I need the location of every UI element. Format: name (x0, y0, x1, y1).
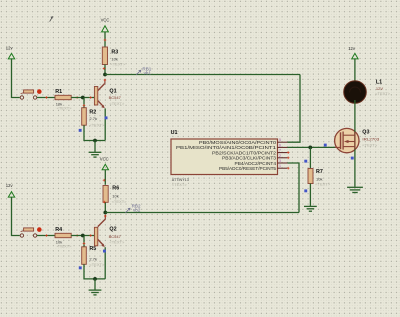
pin-end mark R6 top (103, 179, 106, 182)
blue marker near R5 bottom (79, 266, 82, 269)
switch SW2 terminal right (33, 234, 36, 237)
transistor Q2 collector stub (104, 215, 106, 220)
svg-text:<TEXT>: <TEXT> (89, 123, 105, 128)
U1 pin stub PB4 (pin 3) (278, 162, 288, 164)
switch SW1 actuator bar (24, 90, 34, 93)
wire R7 bottom pin (309, 184, 311, 206)
switch SW2 terminal left (20, 234, 23, 237)
junction collector node Q1 / net RB1 (103, 73, 107, 77)
svg-text:IRL2703: IRL2703 (362, 137, 380, 142)
resistor R3 body (102, 47, 107, 65)
power VCC (middle) arrow (102, 164, 108, 170)
svg-text:<TEXT>: <TEXT> (375, 91, 391, 96)
wire switch to R4 (bottom) (37, 235, 55, 237)
cursor mark (50, 17, 53, 22)
svg-text:<TEXT>: <TEXT> (172, 182, 188, 187)
transistor Q2 base bar (94, 227, 97, 246)
svg-text:R3: R3 (111, 49, 118, 55)
pin-end mark Q2 base (89, 234, 92, 237)
MOSFET Q3 source link (343, 146, 355, 148)
switch SW1 red button dot (37, 89, 42, 94)
U1 pin stub PB1 (pin 6) (278, 146, 288, 148)
power 12v (right) arrow (352, 53, 358, 59)
wire VCC stem to R3 (104, 32, 106, 47)
svg-text:BC547: BC547 (109, 95, 122, 100)
switch SW2 red button dot (37, 227, 42, 232)
svg-text:BC547: BC547 (109, 234, 122, 239)
svg-text:R5: R5 (89, 246, 96, 252)
svg-text:6: 6 (279, 143, 281, 147)
svg-text:12v: 12v (6, 46, 14, 51)
IC U1 body (171, 139, 278, 175)
wire R4 to base node (bottom) (71, 235, 94, 237)
svg-text:2.7k: 2.7k (89, 257, 97, 262)
wire R3 bottom to collector node (104, 65, 106, 75)
svg-text:10k: 10k (112, 193, 118, 198)
svg-text:R2: R2 (89, 109, 96, 115)
svg-text:R1: R1 (55, 89, 62, 95)
svg-text:<TEXT>: <TEXT> (112, 199, 128, 204)
svg-text:Q1: Q1 (109, 88, 116, 94)
resistor R5 top pin wire (83, 236, 85, 247)
svg-text:vb2: vb2 (133, 207, 141, 212)
svg-text:7: 7 (279, 149, 281, 153)
pin-end mark Q2 collector (104, 215, 107, 218)
wire R5 bottom to ground node (84, 264, 105, 279)
pin-end mark U1 PB3 (287, 157, 290, 160)
wire 12v to lamp L1 (354, 59, 356, 82)
blue marker on Q2 emitter wire (103, 250, 106, 253)
svg-text:VCC: VCC (100, 157, 109, 162)
wire VCC stem to R6 (104, 170, 106, 185)
svg-text:<TEXT>: <TEXT> (57, 244, 73, 249)
pin-end mark R5 top (83, 242, 86, 245)
junction base node Q1 (81, 96, 85, 100)
svg-text:<TEXT>: <TEXT> (315, 181, 331, 186)
wire R2 bottom to ground node (84, 125, 105, 140)
svg-text:2.7k: 2.7k (89, 116, 97, 121)
svg-text:PB5/ADC0/RESET/PCINT5: PB5/ADC0/RESET/PCINT5 (219, 166, 277, 171)
ground symbol (top circuit) (89, 141, 102, 158)
MOSFET Q3 body link with arrow (348, 141, 355, 143)
svg-text:12V: 12V (376, 86, 383, 91)
wire 12v stem to switch row (bottom) (12, 197, 20, 235)
MOSFET Q3 body circle (335, 128, 359, 152)
pin-end mark R3 bottom (103, 67, 106, 70)
blue marker near R2 bottom (79, 129, 82, 132)
junction base node Q2 (81, 234, 85, 238)
svg-text:VCC: VCC (101, 18, 110, 23)
wire Q1 emitter down (104, 108, 106, 140)
pin-end mark R6 bottom (103, 201, 106, 204)
svg-text:1: 1 (279, 164, 281, 168)
power VCC (top) arrow (102, 26, 109, 32)
blue marker on Q1 emitter wire (105, 116, 108, 119)
blue marker near R7 bottom (304, 189, 307, 192)
wire lamp to Q3 drain and source to ground (354, 100, 356, 187)
MOSFET Q3 gate inner lead (335, 146, 341, 148)
blue marker on Q3 source (351, 157, 354, 160)
svg-text:2: 2 (279, 154, 281, 158)
net label RB1 arrow (136, 70, 141, 75)
resistor R6 body (103, 186, 108, 203)
U1 pin stub PB3 (pin 2) (278, 157, 288, 159)
wire R1 to base node (top) (71, 97, 94, 99)
wire net RB1 vertical down to U1 pin PB0 (288, 75, 301, 143)
resistor R1 body (55, 95, 71, 99)
switch SW1 terminal left (20, 96, 23, 99)
power 12v (bottom left) arrow (8, 192, 14, 198)
power 12v (top left) arrow (8, 53, 14, 59)
blue marker on gate wire (324, 144, 327, 147)
lamp L1 (344, 81, 367, 104)
svg-text:Q3: Q3 (362, 130, 369, 136)
svg-text:<TEXT>: <TEXT> (362, 143, 378, 148)
MOSFET Q3 drain link (343, 134, 355, 136)
resistor R7 body (308, 169, 313, 184)
ground symbol (R7) (304, 206, 317, 211)
svg-text:L1: L1 (376, 79, 382, 85)
ground symbol (Q3 source) (347, 187, 363, 192)
resistor R2 top pin wire (83, 98, 85, 108)
wire Q2 emitter down (104, 247, 106, 279)
pin-end mark R4 left (45, 234, 48, 237)
U1 pin stub PB2 (pin 7) (278, 152, 288, 154)
pin-end mark Q1 collector (104, 79, 107, 82)
svg-text:R7: R7 (316, 169, 323, 175)
pin-end mark U1 PB2 (287, 151, 290, 154)
svg-text:R6: R6 (112, 186, 119, 192)
transistor Q1 collector stub (104, 79, 106, 84)
pin-end mark R1 right (76, 96, 79, 99)
resistor R2 body (82, 108, 87, 126)
U1 pin stub PB0 (pin 5) (278, 141, 288, 143)
transistor Q2 collector diagonal (98, 219, 105, 226)
svg-text:R4: R4 (55, 227, 62, 233)
transistor Q1 collector diagonal (98, 84, 105, 91)
pin-end mark R1 left (45, 96, 48, 99)
MOSFET Q3 gate bar (340, 132, 342, 149)
svg-text:12v: 12v (6, 183, 14, 188)
svg-text:U1: U1 (171, 130, 178, 136)
svg-text:<TEXT>: <TEXT> (89, 262, 105, 267)
wire net RB2 vertical up to U1 pin PB4 (288, 163, 300, 213)
net label RB2 arrow (125, 208, 130, 213)
pin-end mark R3 top (104, 39, 107, 42)
resistor R4 body (55, 233, 71, 237)
transistor Q2 emitter diagonal with arrow (98, 239, 104, 245)
svg-text:<TEXT>: <TEXT> (110, 62, 126, 67)
wire net RB2 horizontal (105, 212, 299, 214)
U1 pin stub PB5 (pin 1) (278, 167, 288, 169)
MOSFET Q3 internal right vertical (354, 132, 356, 150)
transistor Q1 base bar (94, 87, 97, 106)
ground symbol (bottom circuit) (89, 279, 102, 295)
svg-text:12v: 12v (348, 46, 356, 51)
svg-text:<TEXT>: <TEXT> (109, 240, 125, 245)
svg-text:3: 3 (279, 159, 281, 163)
svg-text:5: 5 (279, 138, 281, 142)
junction emitter/ground node Q2 (93, 277, 97, 281)
junction gate node / R7 (308, 146, 312, 150)
junction collector node Q2 / net RB2 (103, 211, 107, 215)
wire net RB1 horizontal (105, 74, 300, 76)
wire R6 bottom to collector node (104, 202, 106, 212)
resistor R5 body (82, 247, 87, 264)
transistor Q1 emitter diagonal with arrow (98, 101, 104, 107)
wire 12v stem to switch row (top) (12, 59, 20, 98)
pin-end mark Q1 base (89, 96, 92, 99)
pin-end mark R4 right (76, 234, 79, 237)
svg-text:<TEXT>: <TEXT> (57, 106, 73, 111)
svg-text:Q2: Q2 (109, 227, 116, 233)
switch SW2 actuator bar (24, 228, 34, 231)
wire switch to R1 (top) (37, 97, 55, 99)
wire U1 PB1 to Q3 gate (288, 146, 342, 148)
switch SW1 terminal right (33, 96, 36, 99)
blue marker near R7 top (304, 160, 307, 163)
wire R7 top pin (309, 147, 311, 168)
pin-end mark R2 top (83, 104, 86, 107)
junction emitter/ground node Q1 (93, 139, 97, 143)
MOSFET Q3 channel bar (342, 132, 344, 150)
pin-end mark U1 PB5 (287, 167, 290, 170)
svg-text:<TEXT>: <TEXT> (109, 101, 125, 106)
svg-text:vb1: vb1 (144, 71, 152, 76)
